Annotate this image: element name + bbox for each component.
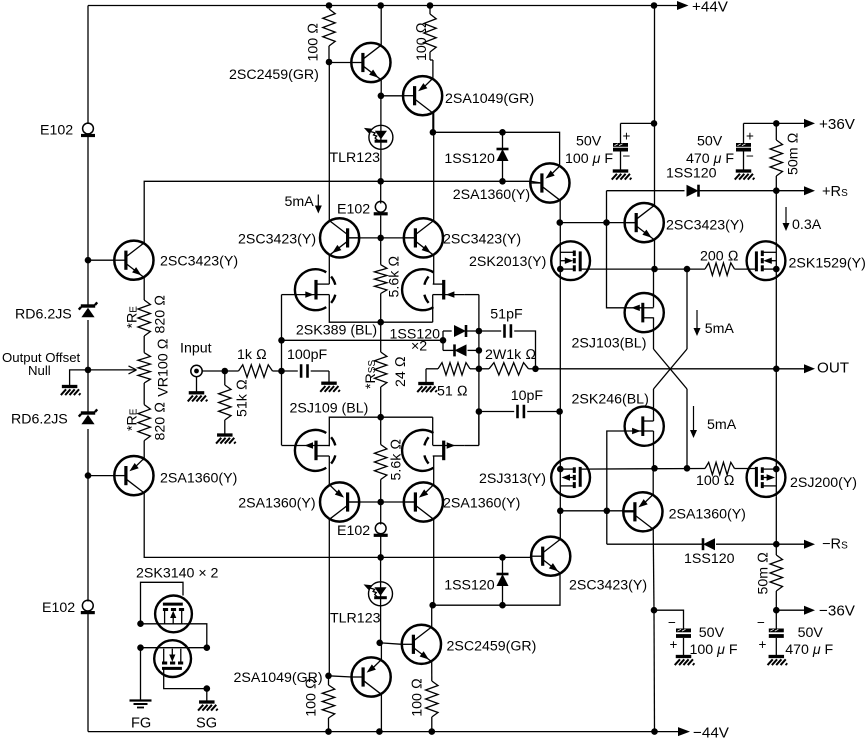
svg-text:50V: 50V bbox=[697, 134, 723, 150]
node -36V bbox=[773, 607, 780, 614]
resistor 100ohm lower gate bbox=[705, 462, 735, 474]
svg-text:51pF: 51pF bbox=[490, 307, 523, 323]
svg-text:5mA: 5mA bbox=[285, 194, 315, 210]
transistor 2SC3423(Y) pair left (mirrored) bbox=[320, 218, 359, 257]
svg-text:2SJ313(Y): 2SJ313(Y) bbox=[479, 471, 546, 487]
svg-text:Null: Null bbox=[28, 363, 51, 378]
JFET 2SJ103(BL) bias bbox=[625, 293, 664, 332]
svg-text:51 Ω: 51 Ω bbox=[437, 384, 468, 400]
wire pair right emitter down to jfet bbox=[433, 255, 435, 284]
svg-text:470 μ F: 470 μ F bbox=[686, 151, 734, 167]
svg-text:1SS120: 1SS120 bbox=[444, 151, 495, 167]
wire 2SK246 source down bbox=[653, 431, 655, 468]
potentiometer VR100ohm bbox=[138, 353, 150, 383]
svg-text:−: − bbox=[746, 149, 754, 164]
ground 100pF bbox=[321, 382, 337, 385]
wire 1k to gate node bbox=[273, 370, 282, 372]
svg-text:2SC3423(Y): 2SC3423(Y) bbox=[443, 232, 521, 248]
wire crossover upper-right bbox=[686, 269, 688, 349]
svg-text:50V: 50V bbox=[798, 625, 824, 641]
JFET 2SK246(BL) bias bbox=[625, 407, 664, 446]
inductor E102 top left bbox=[83, 123, 94, 134]
svg-text:−: − bbox=[623, 149, 631, 164]
wire collector driver down bbox=[559, 200, 561, 222]
node fb right bbox=[532, 366, 539, 373]
node diode pair left bbox=[440, 337, 447, 344]
svg-text:2SC3423(Y): 2SC3423(Y) bbox=[569, 578, 647, 594]
wire offset ground stub bbox=[70, 370, 88, 386]
svg-text:TLR123: TLR123 bbox=[330, 611, 381, 627]
JFET 2SK389 right (mirrored) bbox=[402, 269, 433, 310]
JFET 2SJ109 left bbox=[295, 430, 326, 471]
svg-text:E102: E102 bbox=[42, 600, 75, 616]
resistor 2W1kohm feedback bbox=[489, 363, 529, 375]
MOSFET 2SK3140 lower bbox=[154, 640, 191, 677]
wire gate right jfet down bbox=[465, 294, 479, 296]
wire driver collector down bbox=[652, 529, 655, 610]
svg-text:×2: ×2 bbox=[411, 339, 427, 355]
node bias line / LED chain bbox=[377, 178, 384, 185]
ground 51k bbox=[217, 433, 233, 436]
svg-text:2SC3423(Y): 2SC3423(Y) bbox=[666, 218, 744, 234]
capacitor 100pF bbox=[300, 364, 303, 378]
zener RD6.2JS upper bbox=[81, 304, 95, 307]
wire collector 2SC2459 bottom up bbox=[431, 605, 433, 627]
svg-text:2SJ103(BL): 2SJ103(BL) bbox=[572, 336, 647, 352]
terminal +Rs bbox=[804, 186, 815, 195]
wire 2SA1049 collector node to driver emitter bbox=[430, 129, 437, 136]
zener RD6.2JS lower bbox=[81, 411, 95, 414]
wire emitter 2SC3423 left to RE bbox=[143, 277, 145, 300]
node gate/fb junction bbox=[278, 337, 285, 344]
node gate line junctions bbox=[684, 266, 691, 273]
svg-text:5mA: 5mA bbox=[705, 321, 735, 337]
wire -Rs bbox=[606, 511, 608, 544]
svg-text:820 Ω: 820 Ω bbox=[153, 402, 169, 441]
node base 2SA1049 bottom bbox=[325, 673, 332, 680]
wire 2SK1529 source down to OUT bbox=[775, 280, 777, 369]
svg-text:24 Ω: 24 Ω bbox=[393, 356, 409, 387]
wire 2SJ200 source up to OUT bbox=[775, 369, 777, 458]
svg-text:+: + bbox=[670, 637, 678, 652]
wire jfet lower right drain down bbox=[433, 456, 435, 485]
wire base line 2SC3423 driver bbox=[560, 222, 635, 224]
svg-text:10pF: 10pF bbox=[511, 388, 544, 404]
svg-text:100 μ F: 100 μ F bbox=[565, 151, 613, 167]
node diode top bbox=[499, 129, 506, 136]
resistor *RE 820ohm upper bbox=[138, 300, 150, 336]
node lower diode top bbox=[499, 554, 506, 561]
svg-text:50m Ω: 50m Ω bbox=[756, 552, 772, 595]
node base 2SA1360 left bbox=[85, 472, 92, 479]
resistor 51ohm bbox=[418, 382, 434, 385]
wire pair left emitter down to jfet bbox=[328, 255, 330, 284]
wire LED chain to E102 bbox=[380, 181, 382, 203]
svg-text:E102: E102 bbox=[40, 123, 73, 139]
terminal +44V bbox=[677, 1, 689, 10]
LED TLR123 top bbox=[380, 96, 382, 182]
wire lower emitter line bbox=[433, 573, 560, 605]
svg-text:1SS120: 1SS120 bbox=[684, 551, 735, 567]
wire E102 to base line bbox=[380, 216, 382, 238]
resistor *RSS 24ohm bbox=[375, 352, 387, 387]
wire 100ohm#2 to 2SA1049 emitter bbox=[429, 52, 431, 60]
wire 2SK1529 drain up bbox=[775, 191, 777, 242]
wire +44V top rail bbox=[88, 5, 678, 7]
node base left bbox=[85, 257, 92, 264]
capacitor 51pF bbox=[479, 330, 501, 332]
svg-text:−44V: −44V bbox=[693, 725, 730, 742]
svg-text:2SK246(BL): 2SK246(BL) bbox=[572, 392, 649, 408]
svg-text:1k Ω: 1k Ω bbox=[237, 347, 267, 363]
transistor 2SA1360(Y) driver mid-lower bbox=[623, 492, 662, 531]
wire driver emitter up bbox=[652, 468, 654, 495]
wire FG down bbox=[140, 648, 142, 700]
svg-text:−RS: −RS bbox=[822, 537, 848, 553]
svg-text:470 μ F: 470 μ F bbox=[785, 642, 833, 658]
diode 1SS120 -Rs bbox=[703, 538, 715, 550]
node diode bottom on bias line bbox=[499, 178, 506, 185]
resistor 50mohm top bbox=[775, 123, 777, 140]
MOSFET 2SK2013(Y) bbox=[551, 241, 590, 280]
capacitor 470uF 50V bottom bbox=[775, 610, 777, 628]
wire 100ohm to 2SJ200 gate bbox=[735, 468, 757, 470]
svg-text:2SK389 (BL): 2SK389 (BL) bbox=[296, 322, 377, 338]
diode 1SS120 lower bbox=[502, 557, 504, 574]
svg-text:1SS120: 1SS120 bbox=[666, 166, 717, 182]
wire lower bias line bbox=[381, 556, 531, 558]
wire gate left jfet bbox=[282, 294, 296, 296]
transistor 2SA1360(Y) input cascode left lower bbox=[114, 456, 153, 495]
wire 2SK3140 top loop bbox=[141, 582, 184, 623]
wire jfet lower left drain down bbox=[328, 456, 330, 485]
transistor 2SC3423(Y) input cascode left bbox=[114, 241, 153, 280]
ground FG bbox=[130, 699, 152, 701]
svg-text:2SA1360(Y): 2SA1360(Y) bbox=[443, 496, 520, 512]
wire pair left collector down bbox=[328, 519, 330, 676]
transistor 2SA1049(GR) bottom bbox=[352, 657, 391, 696]
svg-text:100pF: 100pF bbox=[287, 347, 328, 363]
node lower emitter/base junction bbox=[376, 640, 383, 647]
svg-text:VR100 Ω: VR100 Ω bbox=[156, 338, 172, 396]
wire -36V bbox=[776, 609, 805, 611]
wire gate node to 100pF bbox=[282, 370, 298, 372]
wire 200ohm to gate bbox=[735, 268, 757, 270]
svg-text:100 Ω: 100 Ω bbox=[696, 473, 735, 489]
wire collector 2SC3423 left up bbox=[144, 181, 381, 243]
svg-text:2SK1529(Y): 2SK1529(Y) bbox=[789, 256, 866, 272]
diode 1SS120 top bbox=[502, 132, 504, 149]
wire 2SK2013 drain from driver collector bbox=[559, 223, 561, 242]
ground SG bbox=[199, 700, 215, 703]
svg-text:100 Ω: 100 Ω bbox=[410, 678, 426, 717]
transistor 2SA1360(Y) driver top bbox=[530, 163, 569, 202]
wire base wire 2SC2459 bottom bbox=[380, 643, 402, 645]
wire 2SJ313 gate/source line bbox=[580, 468, 705, 471]
wire 2SK246 gate bbox=[607, 431, 625, 511]
svg-text:*RSS: *RSS bbox=[363, 360, 379, 389]
wire collector 2SA1049 down bbox=[432, 113, 434, 133]
svg-text:1SS120: 1SS120 bbox=[444, 578, 495, 594]
svg-text:+44V: +44V bbox=[692, 0, 729, 16]
resistor 100ohm top-left bbox=[323, 9, 335, 46]
svg-text:2SA1049(GR): 2SA1049(GR) bbox=[445, 91, 534, 107]
wire jfet left source down bbox=[329, 295, 432, 323]
svg-text:−: − bbox=[668, 615, 676, 630]
wire 2SJ103 source up bbox=[653, 269, 655, 307]
node source junction upper bbox=[377, 319, 384, 326]
resistor 100ohm bottom right bbox=[426, 681, 438, 717]
svg-text:100 Ω: 100 Ω bbox=[306, 23, 322, 62]
node SG taps bbox=[204, 644, 211, 651]
node 51k tap bbox=[222, 368, 229, 375]
resistor 100ohm bottom left bbox=[328, 676, 330, 685]
LED TLR123 lower bbox=[380, 557, 382, 642]
node gate/input junction bbox=[278, 368, 285, 375]
svg-text:2SA1360(Y): 2SA1360(Y) bbox=[453, 187, 530, 203]
wire collector 2SC2459 to rail bbox=[380, 6, 382, 46]
diode 1SS120 clamp upper bbox=[443, 330, 452, 332]
node fb node bbox=[476, 366, 483, 373]
current arrow 5mA lower-right bbox=[693, 406, 695, 431]
node 2SJ313 to driver bbox=[557, 508, 564, 515]
svg-text:SG: SG bbox=[196, 716, 217, 732]
terminal -Rs bbox=[804, 540, 815, 549]
svg-text:RD6.2JS: RD6.2JS bbox=[15, 307, 72, 323]
inductor E102 lower-center bbox=[380, 502, 382, 525]
resistor 100ohm top-second bbox=[424, 14, 436, 52]
current arrow 5mA upper-right bbox=[696, 310, 698, 329]
node lower diode bottom bbox=[499, 602, 506, 609]
wire driver collector to rail bbox=[654, 6, 656, 206]
wire base line of pair bbox=[348, 237, 414, 239]
transistor 2SA1049(GR) top bbox=[403, 76, 442, 115]
wire base 2SC2459 top bbox=[329, 62, 352, 64]
node lower -Rs tap bbox=[604, 508, 611, 515]
svg-text:5mA: 5mA bbox=[707, 417, 737, 433]
svg-text:E102: E102 bbox=[337, 523, 370, 539]
wire +Rs bbox=[606, 191, 608, 223]
node bottom rail junctions bbox=[325, 728, 332, 735]
wire lower driver base line bbox=[560, 510, 635, 512]
svg-text:+RS: +RS bbox=[822, 184, 848, 200]
svg-text:−: − bbox=[757, 615, 765, 630]
wire crossover X bbox=[654, 349, 688, 389]
wire RE to VR100 bbox=[143, 336, 145, 353]
svg-text:2SK3140 × 2: 2SK3140 × 2 bbox=[136, 566, 219, 582]
svg-text:2SJ109 (BL): 2SJ109 (BL) bbox=[290, 401, 369, 417]
wire base 2SC3423 left bbox=[88, 259, 114, 261]
wire crossover to 2SK246 drain bbox=[653, 389, 655, 421]
svg-text:2SC2459(GR): 2SC2459(GR) bbox=[447, 639, 537, 655]
wire base 2SA1049 bottom bbox=[329, 676, 352, 677]
node FG taps bbox=[137, 620, 144, 627]
wire wiper arrow to VR100 bbox=[88, 369, 137, 371]
wire pair right collector down bbox=[433, 519, 435, 605]
svg-text:2SA1360(Y): 2SA1360(Y) bbox=[160, 471, 237, 487]
svg-text:50m Ω: 50m Ω bbox=[786, 132, 802, 175]
resistor 5.6kohm upper bbox=[380, 238, 382, 265]
resistor 1kohm series bbox=[239, 365, 273, 377]
svg-text:2W1k Ω: 2W1k Ω bbox=[485, 347, 536, 363]
node top rail junctions bbox=[326, 2, 333, 9]
current arrow 0.3A bbox=[785, 207, 787, 224]
node +Rs to 50m bbox=[773, 187, 780, 194]
svg-text:−36V: −36V bbox=[819, 603, 856, 620]
svg-text:5.6k Ω: 5.6k Ω bbox=[387, 256, 403, 298]
MOSFET 2SK3140 upper bbox=[155, 596, 192, 633]
capacitor 10pF bbox=[478, 412, 480, 446]
node -Rs to 50m bbox=[773, 541, 780, 548]
inductor E102 top-center bbox=[375, 201, 386, 212]
svg-text:2SK2013(Y): 2SK2013(Y) bbox=[469, 254, 546, 270]
svg-text:0.3A: 0.3A bbox=[792, 217, 822, 233]
wire jfet right source down bbox=[432, 295, 434, 323]
wire gate fb line bbox=[282, 339, 444, 341]
MOSFET 2SJ200(Y) output P bbox=[747, 458, 786, 497]
terminal -36V bbox=[804, 606, 815, 615]
svg-text:100 μ F: 100 μ F bbox=[690, 642, 738, 658]
wire pair right collector up bbox=[433, 113, 435, 221]
ground offset null bbox=[62, 385, 78, 388]
svg-text:E102: E102 bbox=[337, 202, 370, 218]
wire driver emitter down bbox=[654, 240, 656, 269]
diode 1SS120 clamp lower bbox=[443, 349, 455, 351]
node clamp right lower bbox=[476, 347, 483, 354]
terminal -44V bbox=[678, 727, 690, 736]
svg-text:FG: FG bbox=[131, 716, 151, 732]
node +Rs tap bbox=[603, 219, 610, 226]
terminal +36V bbox=[804, 119, 815, 128]
capacitor 100uF 50V top bbox=[620, 123, 622, 143]
node driver collector bbox=[557, 219, 564, 226]
terminal OUT bbox=[804, 364, 815, 373]
ground input jack bbox=[196, 377, 198, 393]
JFET 2SK389 left bbox=[295, 269, 326, 310]
svg-text:RD6.2JS: RD6.2JS bbox=[11, 412, 68, 428]
node base 2SC2459 top bbox=[326, 59, 333, 66]
wire 2SJ200 drain down to -Rs bbox=[775, 497, 777, 544]
wire 2SA1049 emitter up bbox=[380, 643, 382, 660]
wire base 2SA1360 left bbox=[88, 475, 114, 477]
wire 2SK3140 lower gate to SG bbox=[164, 668, 207, 701]
node driver emitter to gate line bbox=[651, 266, 658, 273]
wire lower jfet sources bbox=[329, 417, 432, 446]
svg-text:2SA1360(Y): 2SA1360(Y) bbox=[238, 496, 315, 512]
wire RE lower to 2SA1360 emitter bbox=[143, 441, 145, 461]
wire +36V bbox=[744, 122, 806, 124]
wire emitter 2SC2459 down bbox=[380, 79, 382, 96]
transistor 2SC2459(GR) bottom bbox=[402, 625, 441, 664]
wire base line lower pair bbox=[348, 501, 414, 503]
JFET 2SJ109 right (mirrored) bbox=[402, 430, 433, 471]
resistor 5.6kohm lower bbox=[380, 417, 382, 444]
svg-text:2SC2459(GR): 2SC2459(GR) bbox=[229, 67, 319, 83]
svg-text:+: + bbox=[746, 129, 754, 144]
svg-text:2SA1360(Y): 2SA1360(Y) bbox=[669, 507, 746, 523]
node OUT right bbox=[773, 366, 780, 373]
svg-text:+: + bbox=[623, 129, 631, 144]
svg-text:820 Ω: 820 Ω bbox=[153, 295, 169, 334]
resistor *RE 820ohm lower bbox=[138, 405, 150, 441]
svg-text:2SC3423(Y): 2SC3423(Y) bbox=[160, 254, 238, 270]
wire 2SK3140 upper source to right bbox=[141, 623, 184, 625]
wire cap to main vertical bbox=[621, 122, 655, 124]
wire pair left collector up bbox=[328, 62, 330, 221]
svg-text:100 Ω: 100 Ω bbox=[414, 22, 430, 61]
capacitor 100uF 50V bottom bbox=[651, 607, 658, 614]
transistor 2SC2459(GR) top bbox=[351, 43, 390, 82]
wire crossover to lower gate line bbox=[686, 389, 688, 468]
wire 100ohm to base node bbox=[328, 46, 330, 62]
wire driver collector to -44V rail bbox=[653, 610, 656, 731]
svg-text:+: + bbox=[759, 637, 767, 652]
wire emitter 2SC2459 bottom down bbox=[431, 661, 433, 681]
node +36V bbox=[773, 120, 780, 127]
MOSFET 2SK1529(Y) output N bbox=[747, 241, 786, 280]
wire 2SK2013 source/gate line to 200ohm bbox=[580, 268, 705, 270]
connector input jack bbox=[191, 365, 202, 376]
svg-text:50V: 50V bbox=[576, 134, 602, 150]
svg-text:2SJ200(Y): 2SJ200(Y) bbox=[790, 475, 857, 491]
wire VR100 to RE lower bbox=[143, 383, 145, 405]
wire input to 1k bbox=[202, 370, 238, 372]
svg-text:TLR123: TLR123 bbox=[330, 150, 381, 166]
node clamp right upper bbox=[476, 328, 483, 335]
svg-text:Input: Input bbox=[180, 341, 212, 357]
resistor 50mohm bottom bbox=[775, 544, 777, 555]
transistor 2SA1360(Y) pair right bbox=[404, 482, 443, 521]
wire OUT line bbox=[536, 368, 806, 370]
node lower bias line bbox=[377, 554, 384, 561]
resistor 200ohm bbox=[705, 263, 735, 275]
wire cross link bbox=[141, 647, 207, 649]
svg-text:50V: 50V bbox=[699, 625, 725, 641]
wire 2SA1049 collector down bbox=[380, 694, 382, 732]
diode 1SS120 +Rs bbox=[687, 185, 699, 197]
MOSFET 2SJ313(Y) bbox=[551, 458, 590, 497]
capacitor 470uF 50V top bbox=[743, 123, 745, 143]
svg-text:2SC3423(Y): 2SC3423(Y) bbox=[238, 232, 316, 248]
wire bias line into base bbox=[381, 180, 531, 182]
transistor 2SA1360(Y) pair left (mirrored) bbox=[320, 482, 359, 521]
node cap junction bbox=[651, 120, 658, 127]
wire left rail vertical bbox=[87, 6, 89, 125]
svg-text:+36V: +36V bbox=[819, 116, 856, 133]
node lower pair base bbox=[377, 499, 384, 506]
resistor 51kohm bbox=[224, 371, 226, 385]
node pair base center bbox=[377, 235, 384, 242]
node lower gate line junctions bbox=[651, 465, 658, 472]
wire -44V bottom rail bbox=[88, 731, 679, 733]
wire 100pF to ground bbox=[311, 370, 329, 372]
inductor E102 bottom left bbox=[82, 600, 93, 611]
wire 2SJ103 drain down to crossover bbox=[653, 317, 655, 349]
svg-text:*RE: *RE bbox=[125, 408, 141, 431]
wire 2SJ313 drain down bbox=[559, 497, 561, 539]
wire base 2SA1049 top bbox=[381, 95, 403, 97]
wire 2SJ103 gate bbox=[607, 223, 625, 308]
svg-text:100 Ω: 100 Ω bbox=[304, 678, 320, 717]
node offset null junction bbox=[85, 367, 92, 374]
wire collector 2SA1360 left down bbox=[144, 493, 381, 558]
svg-text:OUT: OUT bbox=[817, 360, 849, 377]
transistor 2SC3423(Y) pair right bbox=[404, 218, 443, 257]
wire 2SK2013 chain vertical bbox=[559, 280, 561, 458]
node emitter/base junction top bbox=[378, 93, 385, 100]
svg-text:200 Ω: 200 Ω bbox=[700, 249, 739, 265]
transistor 2SC3423(Y) driver top-right bbox=[625, 203, 664, 242]
